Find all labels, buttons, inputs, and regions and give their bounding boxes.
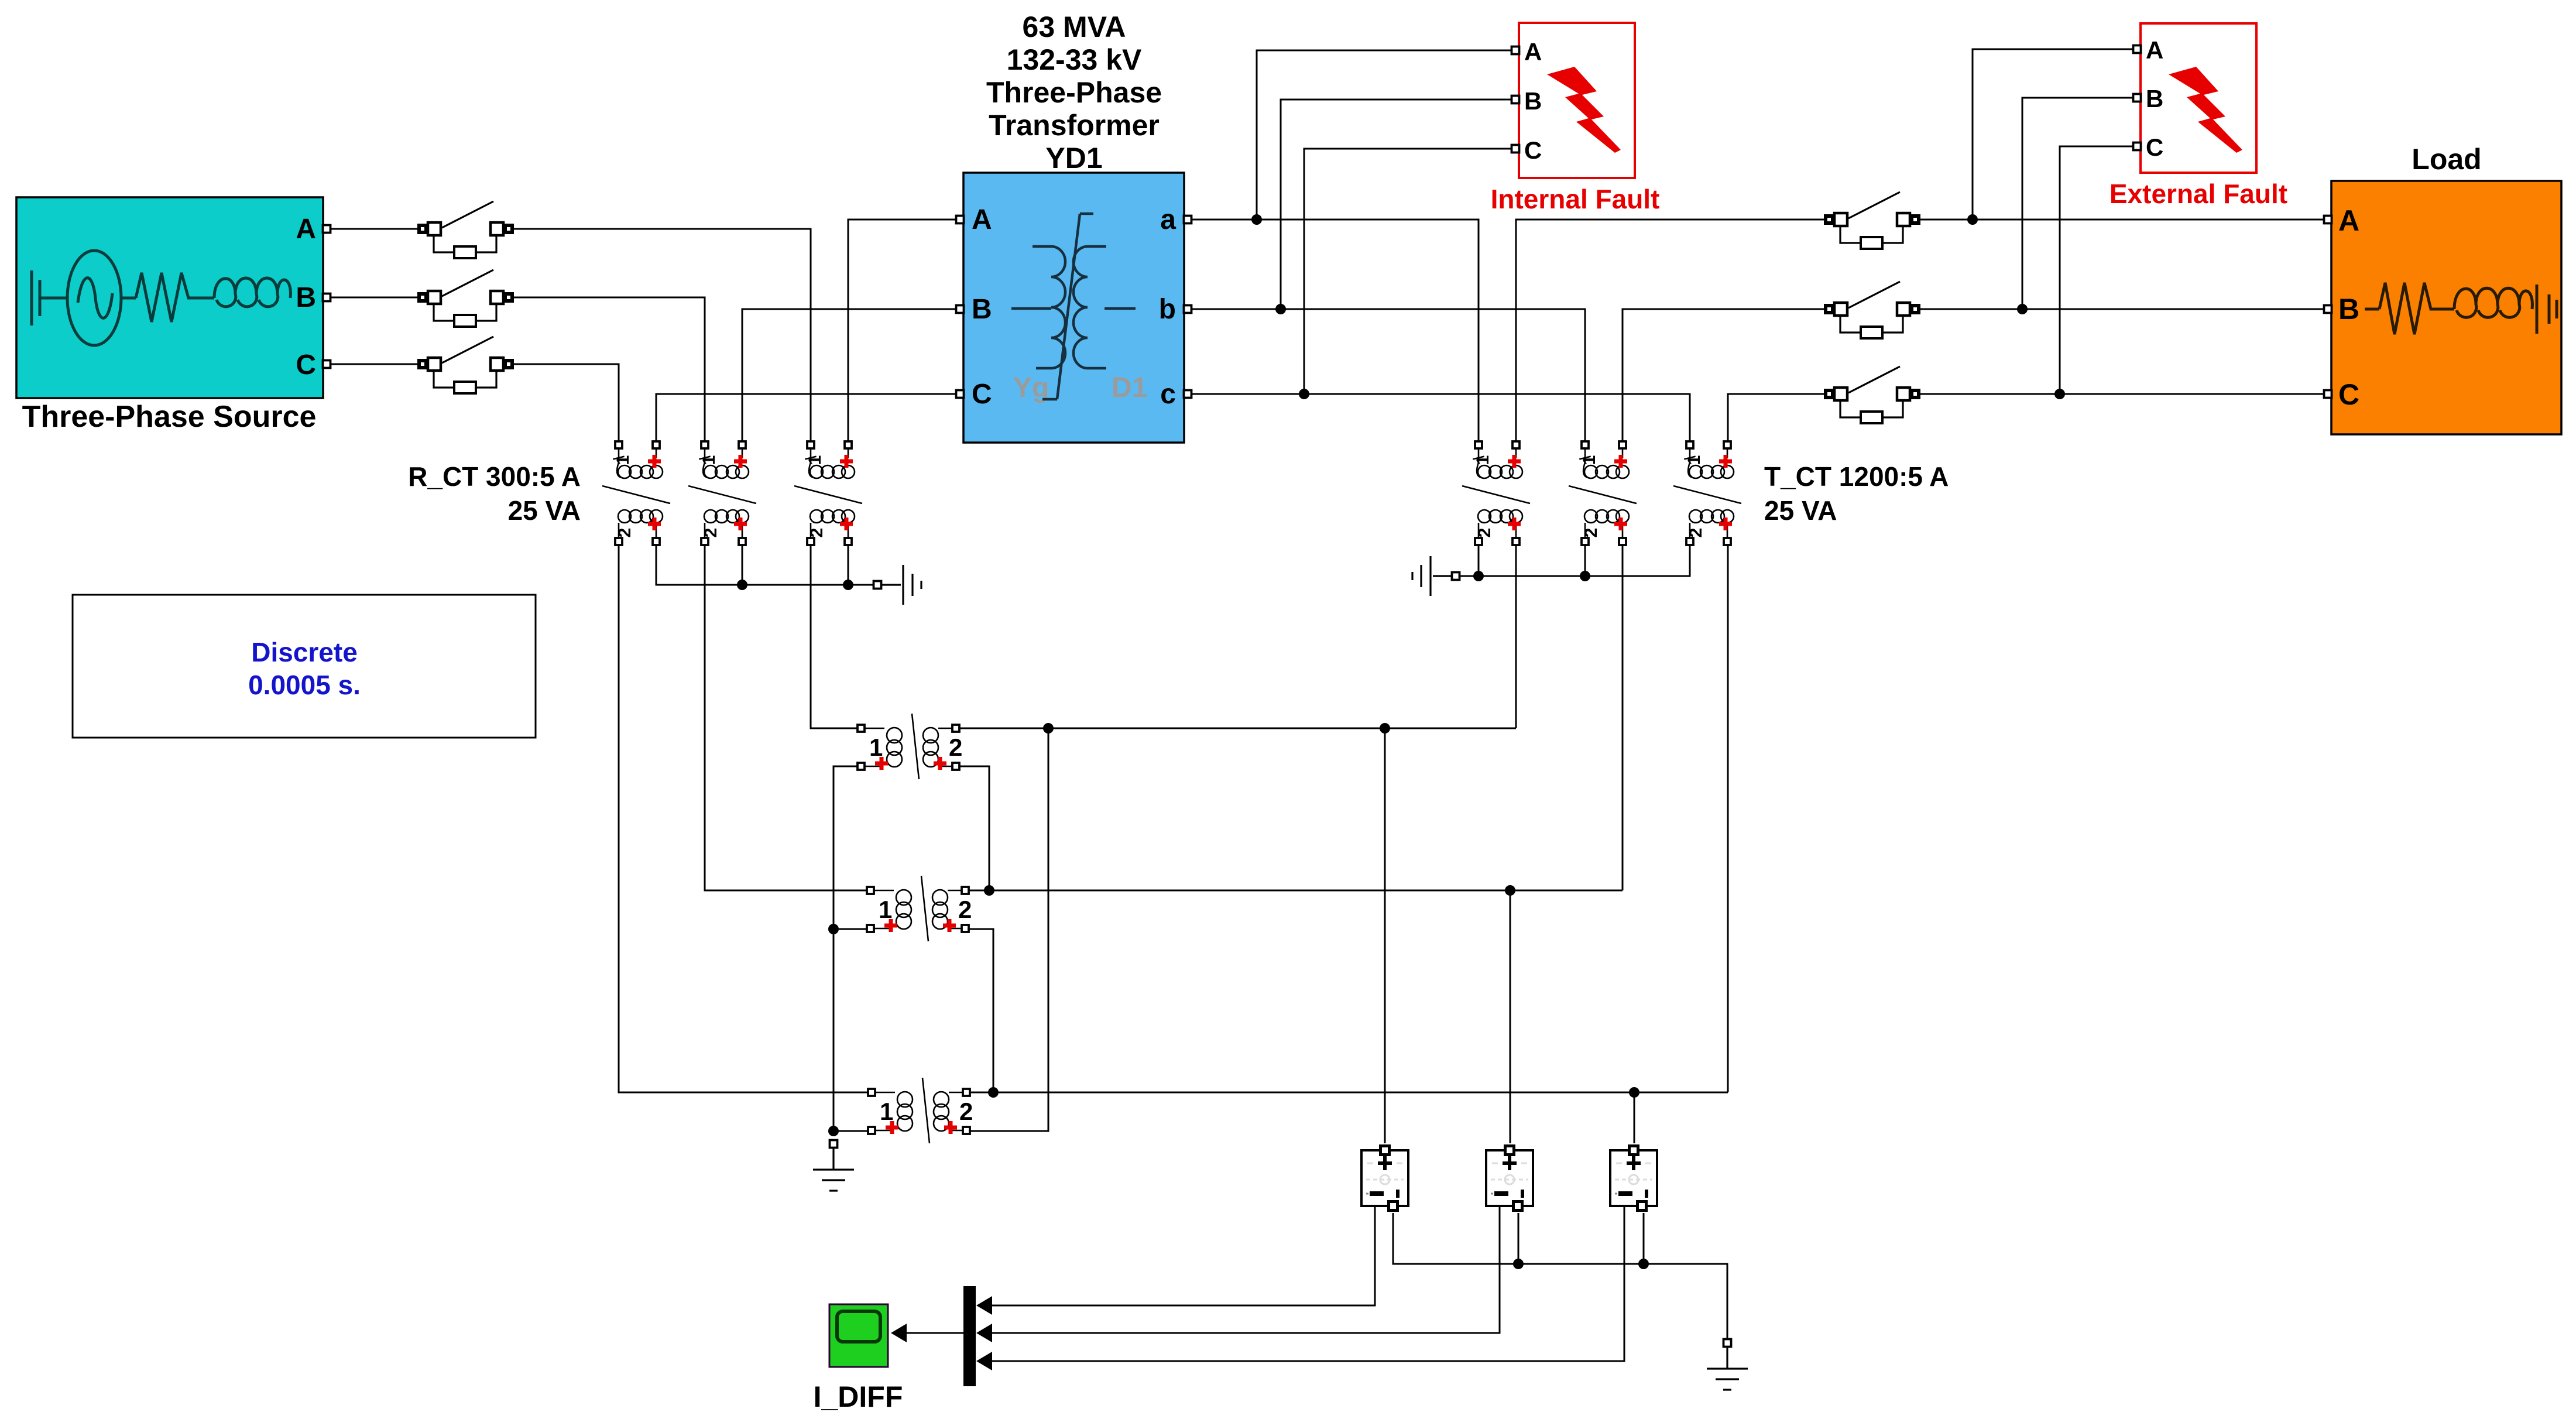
wire transformer b to T_CT b2 [1191, 309, 1585, 441]
wire external fault C tap [2060, 146, 2133, 394]
svg-text:63 MVA: 63 MVA [1023, 11, 1126, 43]
svg-text:C: C [972, 379, 992, 410]
port Internal Fault B [1512, 96, 1519, 104]
breaker source B [417, 270, 514, 327]
svg-text:I_DIFF: I_DIFF [814, 1380, 903, 1412]
ground delta common [813, 1148, 854, 1191]
wire R_CT a2 to transformer B [742, 309, 956, 441]
svg-text:Load: Load [2412, 143, 2481, 176]
node bus j4 [1580, 571, 1590, 581]
node node3 j [988, 1087, 999, 1098]
block Internal Fault [1519, 23, 1635, 178]
wire mux to scope [904, 1332, 963, 1334]
port ground port right bus [1452, 573, 1460, 580]
svg-text:A: A [2146, 36, 2163, 64]
CT T_CT phase a [1462, 441, 1530, 545]
wire R_CT a3 secondary to TX1 [811, 545, 857, 728]
svg-text:Three-Phase: Three-Phase [986, 76, 1162, 109]
current measurement M3 [1610, 1144, 1657, 1212]
wire T_CT b2 secondary [1584, 545, 1586, 576]
wire source B to breaker B [331, 297, 417, 299]
svg-text:C: C [2338, 378, 2359, 411]
svg-text:B: B [296, 282, 316, 313]
breaker load C [1824, 366, 1920, 423]
wire TX3+ to node1 [969, 728, 1048, 1131]
svg-text:0.0005 s.: 0.0005 s. [248, 670, 361, 700]
svg-text:Discrete: Discrete [251, 637, 358, 667]
mux [963, 1286, 976, 1386]
CT T_CT phase b [1569, 441, 1637, 545]
transformer TX2 (1:2) [867, 876, 972, 941]
node ext A [1967, 214, 1978, 225]
block Three-Phase Transformer YD1 [963, 173, 1184, 443]
node delta j2 [828, 1126, 839, 1136]
svg-text:132-33 kV: 132-33 kV [1007, 43, 1142, 76]
node ext B [2017, 304, 2028, 314]
wire internal fault B tap [1281, 100, 1512, 309]
wire breaker A to R_CT a3 primary [514, 229, 811, 441]
port transformer b [1184, 306, 1192, 313]
svg-text:B: B [1524, 87, 1542, 115]
svg-text:C: C [1524, 136, 1542, 164]
wire breaker to Load B [1920, 309, 2324, 310]
node ext C [2054, 389, 2065, 399]
node mbus j1 [1513, 1259, 1524, 1269]
wire M1 signal to mux [992, 1206, 1375, 1305]
wire transformer a to T_CT b1 [1191, 220, 1479, 441]
port Load C [2324, 390, 2332, 398]
CT R_CT phase A (right column) [794, 441, 862, 545]
svg-text:A: A [296, 214, 316, 245]
port Load A [2324, 216, 2332, 224]
wire node2 to M2 [1510, 890, 1511, 1143]
port transformer C [956, 390, 964, 398]
port External Fault B [2133, 94, 2141, 102]
port Internal Fault C [1512, 145, 1519, 153]
wire TX1+ to node2 [959, 766, 989, 890]
svg-text:B: B [972, 294, 992, 325]
svg-text:C: C [296, 349, 316, 381]
port transformer A [956, 216, 964, 224]
wire transformer c to T_CT b3 [1191, 394, 1690, 441]
svg-text:B: B [2146, 85, 2163, 112]
wire external fault A tap [1973, 49, 2133, 220]
wire node3 to M3 [1634, 1092, 1635, 1143]
wire T_CT b2 secondary to node2 [1622, 545, 1624, 890]
wire internal fault C tap [1304, 149, 1512, 394]
scope I_DIFF [829, 1304, 888, 1367]
wire T_CT secondary common bus [1459, 545, 1690, 576]
svg-text:b: b [1159, 294, 1176, 325]
block Load [2331, 181, 2561, 434]
wire TX3- to common [833, 1130, 868, 1132]
wire T_CT b1 to breaker [1516, 220, 1824, 441]
port ground port delta [830, 1140, 838, 1148]
block Three-Phase Source [16, 197, 323, 398]
wire external fault B tap [2022, 98, 2133, 309]
svg-text:A: A [2338, 204, 2359, 237]
wire M3 signal to mux [992, 1206, 1624, 1361]
svg-text:C: C [2146, 133, 2163, 161]
svg-text:External Fault: External Fault [2109, 179, 2287, 209]
svg-text:25 VA: 25 VA [508, 495, 581, 526]
CT R_CT phase C (left column) [602, 441, 670, 545]
wire TX1- to common [833, 766, 857, 1131]
svg-text:D1: D1 [1112, 372, 1147, 403]
ground measurement bus [1707, 1347, 1748, 1390]
wire source A to breaker A [331, 228, 417, 230]
wire T_CT b2 to breaker [1623, 309, 1824, 441]
wire T_CT b3 to breaker [1728, 394, 1824, 441]
node node3 tap [1629, 1087, 1639, 1098]
svg-text:R_CT 300:5 A: R_CT 300:5 A [408, 461, 581, 492]
wire R_CT a2 secondary to TX2 [705, 545, 867, 890]
breaker load A [1824, 192, 1920, 249]
wire breaker B to R_CT a2 primary [514, 297, 705, 441]
current measurement M1 [1361, 1144, 1408, 1212]
wire breaker to Load C [1920, 393, 2324, 395]
svg-text:A: A [1524, 38, 1542, 66]
current measurement M2 [1486, 1144, 1533, 1212]
svg-text:T_CT 1200:5 A: T_CT 1200:5 A [1764, 461, 1949, 492]
wire T_CT b1 secondary [1478, 545, 1480, 576]
port Source A [323, 225, 331, 233]
wire R_CT a2 secondary minus [742, 545, 743, 585]
wire R_CT a3 secondary minus [848, 545, 849, 585]
node bus j3 [1473, 571, 1484, 581]
transformer TX1 (1:2) [857, 714, 962, 779]
CT T_CT phase c [1673, 441, 1741, 545]
node int A [1251, 214, 1262, 225]
svg-text:c: c [1160, 379, 1176, 410]
svg-text:Transformer: Transformer [989, 109, 1160, 142]
svg-text:25 VA: 25 VA [1764, 495, 1837, 526]
block powergui Discrete [73, 595, 536, 738]
svg-text:Internal Fault: Internal Fault [1491, 184, 1660, 214]
wire T_CT b1 secondary to node1 [1515, 545, 1517, 728]
svg-text:B: B [2338, 293, 2359, 325]
node node2 j [984, 885, 994, 896]
wire T_CT b3 secondary to node3 [1727, 545, 1729, 1092]
breaker load B [1824, 282, 1920, 338]
port Internal Fault A [1512, 47, 1519, 54]
ground T_CT bus [1412, 556, 1452, 596]
breaker source A [417, 201, 514, 258]
wire node2 row [969, 890, 1623, 892]
wire measurement minus bus [1393, 1213, 1727, 1339]
wire TX2- to common [833, 928, 867, 930]
port transformer B [956, 306, 964, 313]
node bus j1 [737, 580, 747, 590]
node int C [1299, 389, 1309, 399]
node node2 tap [1505, 885, 1515, 896]
breaker source C [417, 337, 514, 393]
svg-text:YD1: YD1 [1045, 142, 1102, 174]
node bus j2 [843, 580, 853, 590]
svg-text:A: A [972, 204, 992, 235]
wire R_CT a1 to transformer C [656, 394, 956, 441]
wire R_CT secondary common bus [656, 545, 874, 585]
wire node1 to M1 [1384, 728, 1386, 1143]
wire M3 minus [1643, 1213, 1645, 1264]
node mbus j2 [1638, 1259, 1649, 1269]
node delta j1 [828, 924, 839, 934]
port transformer a [1184, 216, 1192, 224]
node node1 j [1043, 723, 1054, 734]
wire R_CT a3 to transformer A [848, 220, 956, 441]
port Source C [323, 361, 331, 368]
port ground port meas [1724, 1339, 1731, 1347]
port External Fault C [2133, 143, 2141, 150]
node node1 tap [1380, 723, 1390, 734]
wire node3 row [971, 1092, 1728, 1094]
port transformer c [1184, 390, 1192, 398]
wire breaker to Load A [1920, 219, 2324, 221]
wire TX2+ to node3 [968, 929, 993, 1092]
port Source B [323, 294, 331, 301]
node int B [1275, 304, 1286, 314]
wire node1 row [959, 728, 1516, 729]
port ground port left bus [874, 581, 881, 589]
port Load B [2324, 306, 2332, 313]
wire M2 minus [1518, 1213, 1519, 1264]
ground R_CT bus [881, 565, 921, 605]
block External Fault [2141, 23, 2256, 173]
svg-text:Three-Phase Source: Three-Phase Source [22, 400, 317, 434]
wire R_CT a1 secondary to TX3 [619, 545, 868, 1092]
wire M2 signal to mux [992, 1206, 1500, 1333]
transformer TX3 (1:2) [868, 1078, 973, 1143]
wire source C to breaker C [331, 364, 417, 365]
svg-text:a: a [1160, 204, 1176, 235]
wire internal fault A tap [1257, 50, 1512, 220]
CT R_CT phase B (middle column) [688, 441, 756, 545]
port External Fault A [2133, 46, 2141, 53]
wire breaker C to R_CT a1 primary [514, 364, 619, 441]
